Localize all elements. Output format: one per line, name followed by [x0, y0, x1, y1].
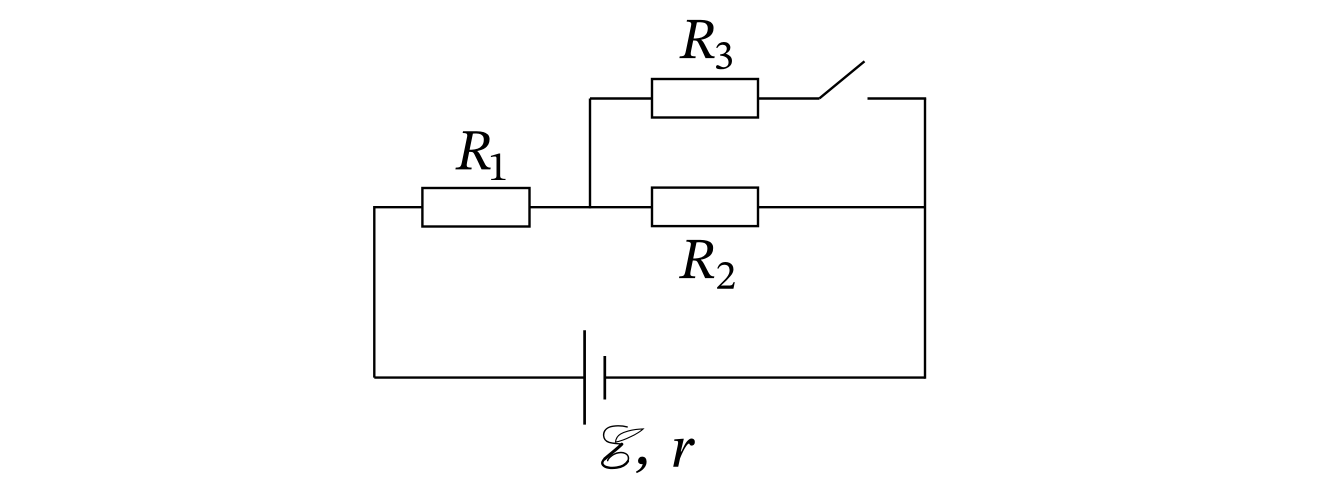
switch S (open blade): [820, 61, 865, 98]
label EMF script E: [602, 426, 643, 468]
wire main middle horizontal (node between R1 and parallel pair): [374, 206, 925, 208]
label R1: [455, 131, 505, 180]
wire switch right contact: [868, 97, 927, 99]
wire bottom right segment (battery to right): [605, 376, 925, 378]
wire right vertical: [924, 99, 926, 379]
battery short plate (negative terminal): [603, 356, 606, 400]
resistor R3: [652, 79, 758, 118]
label r (internal resistance): [673, 439, 695, 467]
label comma: [636, 457, 647, 473]
label R3: [679, 20, 732, 69]
wire bottom left segment (to battery): [374, 376, 584, 378]
wire top horizontal into R3 and to switch: [590, 97, 820, 99]
battery long plate (positive terminal): [583, 330, 586, 424]
label R2: [679, 240, 735, 289]
wire branch vertical (junction node to R3 branch): [589, 99, 591, 209]
resistor R1: [422, 188, 529, 227]
wire left vertical: [373, 206, 375, 378]
resistor R2: [652, 188, 758, 227]
